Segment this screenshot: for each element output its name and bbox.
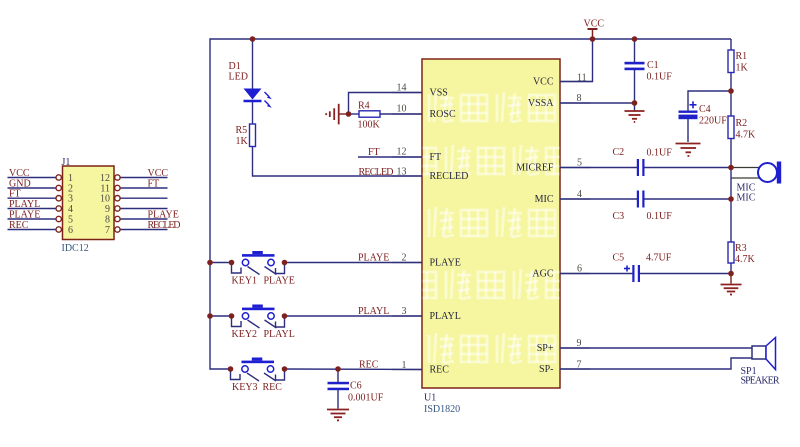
- junction dot AGC node: [728, 271, 734, 277]
- U1 pin 3 stub: [392, 306, 422, 317]
- wire C4 branch: [688, 91, 731, 111]
- junction dot R4 ground node: [346, 111, 352, 117]
- svg-text:C1: C1: [647, 60, 659, 71]
- resistor R4: [358, 101, 381, 131]
- J1 pin 9 row: [105, 204, 168, 215]
- wire C3 to MIC node: [644, 198, 731, 200]
- svg-text:IDC12: IDC12: [62, 243, 89, 254]
- svg-text:REC: REC: [359, 359, 379, 370]
- svg-text:MICREF: MICREF: [516, 163, 554, 174]
- wire KEY1 left: [210, 262, 232, 264]
- J1 pin 10 row: [100, 194, 168, 205]
- svg-text:RECLED: RECLED: [430, 171, 469, 182]
- capacitor C4 electrolytic: [679, 101, 728, 126]
- svg-text:KEY3: KEY3: [232, 382, 258, 393]
- wire R4 to ROSC pin: [380, 113, 422, 115]
- U1 pin name FT: [430, 152, 442, 163]
- U1 pin name AGC: [532, 269, 553, 280]
- svg-text:VCC: VCC: [533, 77, 554, 88]
- junction dot LED top: [250, 36, 256, 42]
- svg-text:PLAYL: PLAYL: [358, 306, 389, 317]
- U1 pin 13 stub: [392, 167, 422, 178]
- resistor R1: [728, 50, 749, 74]
- U1 pin 12 stub: [392, 147, 422, 158]
- J1 pin 2 row: [8, 179, 74, 195]
- U1 pin name SP-: [539, 364, 553, 375]
- svg-text:9: 9: [105, 204, 110, 215]
- U1 pin name RECLED: [430, 171, 469, 182]
- svg-text:4: 4: [68, 204, 73, 215]
- svg-text:4.7UF: 4.7UF: [646, 253, 672, 264]
- svg-text:MIC: MIC: [535, 194, 554, 205]
- J1 pin 12 row: [100, 168, 168, 184]
- wire ground node to R4: [349, 113, 360, 115]
- svg-text:0.1UF: 0.1UF: [647, 72, 673, 83]
- wire VCC symbol to pin 11: [560, 39, 593, 82]
- U1 pin name PLAYL: [430, 311, 461, 322]
- U1 pin name VSS: [430, 88, 448, 99]
- svg-text:R1: R1: [736, 51, 748, 62]
- wire R2 to MICREF node: [730, 139, 732, 168]
- svg-text:FT: FT: [368, 147, 380, 158]
- wire VSSA node to ground: [634, 103, 636, 111]
- net label REC: [359, 359, 379, 370]
- svg-text:1: 1: [68, 173, 73, 184]
- net label PLAYE: [358, 253, 389, 264]
- ground below C1: [625, 111, 645, 122]
- U1 pin name PLAYE: [430, 258, 461, 269]
- J1 pin 6 row: [8, 220, 74, 236]
- connector J1 IDC12: [62, 157, 115, 254]
- svg-text:8: 8: [105, 215, 110, 226]
- svg-text:KEY2: KEY2: [232, 329, 258, 340]
- U1 designator label: [424, 393, 460, 416]
- wire MICREF node to mic: [731, 167, 759, 169]
- junction dot rail KEY2: [207, 313, 213, 319]
- svg-text:SP+: SP+: [537, 343, 554, 354]
- svg-text:VCC: VCC: [9, 168, 30, 179]
- svg-text:VSS: VSS: [430, 88, 448, 99]
- U1 pin name MICREF: [516, 163, 554, 174]
- wire R1 to R2: [730, 73, 732, 117]
- svg-text:PLAYE: PLAYE: [358, 253, 389, 264]
- wire R3 to AGC node: [730, 263, 732, 274]
- wire FT stub: [358, 156, 422, 158]
- wire R1 column: [730, 39, 732, 50]
- svg-text:10: 10: [397, 104, 407, 115]
- svg-text:PLAYL: PLAYL: [430, 311, 461, 322]
- junction dot KEY1 right: [282, 260, 288, 266]
- svg-text:LED: LED: [229, 72, 248, 83]
- capacitor C1: [625, 60, 673, 83]
- pushbutton KEY1: [232, 251, 295, 287]
- junction dot MIC node: [728, 196, 734, 202]
- svg-text:220UF: 220UF: [699, 116, 727, 127]
- svg-text:1K: 1K: [736, 63, 749, 74]
- svg-text:0.1UF: 0.1UF: [647, 211, 673, 222]
- junction dot R1 R2 C4 node: [728, 88, 734, 94]
- svg-text:C6: C6: [350, 381, 362, 392]
- svg-text:R3: R3: [735, 243, 747, 254]
- svg-text:C5: C5: [613, 253, 625, 264]
- U1 pin 7 stub: [560, 360, 590, 371]
- U1 pin 10 stub: [392, 104, 422, 115]
- VCC power symbol: [584, 19, 605, 40]
- svg-text:0.001UF: 0.001UF: [348, 393, 384, 404]
- LED D1: [229, 61, 272, 108]
- J1 pin 8 row: [105, 210, 179, 226]
- svg-text:5: 5: [68, 215, 73, 226]
- U1 pin 1 stub: [392, 360, 422, 371]
- svg-text:PLAYE: PLAYE: [148, 210, 179, 221]
- svg-text:C2: C2: [613, 147, 625, 158]
- U1 pin 2 stub: [392, 253, 422, 264]
- U1 pin 9 stub: [560, 338, 590, 349]
- pushbutton KEY3: [231, 358, 285, 394]
- svg-text:REC: REC: [263, 382, 283, 393]
- svg-text:VCC: VCC: [584, 19, 605, 30]
- svg-text:100K: 100K: [358, 120, 381, 131]
- svg-text:4.7K: 4.7K: [736, 130, 757, 141]
- U1 pin name VSSA: [528, 98, 554, 109]
- svg-text:C4: C4: [699, 104, 711, 115]
- svg-text:MIC: MIC: [737, 193, 756, 204]
- wire VSS pin to ground node: [349, 93, 423, 115]
- U1 pin 8 stub: [560, 93, 590, 104]
- J1 pin 3 row: [8, 189, 74, 205]
- svg-text:ISD1820: ISD1820: [424, 404, 460, 415]
- junction dot C1 rail: [632, 36, 638, 42]
- wire SP+ to speaker: [560, 347, 752, 349]
- svg-text:1K: 1K: [236, 136, 249, 147]
- wire C6 to ground: [337, 390, 339, 409]
- svg-text:SP-: SP-: [539, 364, 553, 375]
- ground below R3: [721, 285, 742, 295]
- svg-text:VSSA: VSSA: [528, 98, 554, 109]
- svg-text:PLAYL: PLAYL: [9, 199, 40, 210]
- capacitor C5: [613, 253, 672, 283]
- svg-text:FT: FT: [430, 152, 442, 163]
- wire KEY2 to PLAYL pin: [285, 315, 423, 317]
- ground sideways at R4: [326, 104, 339, 125]
- junction dot VSSA node: [632, 100, 638, 106]
- wire C4 to ground: [687, 119, 689, 142]
- pushbutton KEY2: [232, 305, 295, 341]
- wire KEY3 to REC pin: [285, 368, 423, 371]
- svg-text:RECLED: RECLED: [359, 167, 394, 178]
- junction dot KEY2 left: [229, 313, 235, 319]
- U1 pin name SP+: [537, 343, 554, 354]
- svg-text:PLAYL: PLAYL: [264, 329, 295, 340]
- capacitor C2: [613, 147, 673, 176]
- svg-text:FT: FT: [148, 179, 160, 190]
- resistor R3: [728, 242, 756, 265]
- wire MICREF pin to C2: [560, 167, 637, 169]
- op-amp U1 ISD1820 chip body: [410, 59, 572, 388]
- wire MIC node to R3: [730, 199, 732, 242]
- U1 pin name REC: [430, 365, 450, 376]
- wire top VCC rail: [210, 38, 731, 40]
- wire LED column top: [252, 39, 254, 89]
- wire KEY1 to PLAYE pin: [285, 262, 423, 264]
- junction dot rail KEY1: [207, 260, 213, 266]
- U1 pin 6 stub: [560, 264, 590, 275]
- J1 pin 4 row: [8, 199, 74, 215]
- resistor R2: [728, 116, 756, 141]
- svg-text:6: 6: [68, 225, 73, 236]
- microphone MIC: [737, 162, 782, 204]
- svg-text:12: 12: [397, 147, 407, 158]
- wire AGC node to ground: [730, 274, 732, 284]
- net label FT: [368, 147, 380, 158]
- svg-text:REC: REC: [430, 365, 450, 376]
- svg-text:PLAYE: PLAYE: [264, 276, 295, 287]
- J1 pin 11 row: [100, 179, 167, 195]
- junction dot KEY1 left: [229, 260, 235, 266]
- svg-text:PLAYE: PLAYE: [9, 210, 40, 221]
- svg-text:0.1UF: 0.1UF: [647, 148, 673, 159]
- wire KEY2 left: [210, 315, 232, 317]
- wire ground stub R4: [339, 113, 349, 115]
- net label PLAYL: [358, 306, 389, 317]
- svg-text:R4: R4: [358, 101, 370, 112]
- wire SP- to speaker: [560, 358, 752, 369]
- svg-text:4.7K: 4.7K: [735, 254, 756, 265]
- wire C2 to MICREF node: [644, 167, 731, 169]
- J1 pin 7 row: [105, 220, 181, 236]
- svg-text:PLAYE: PLAYE: [430, 258, 461, 269]
- junction dot KEY2 right: [282, 313, 288, 319]
- U1 pin name MIC: [535, 194, 554, 205]
- U1 pin 14 stub: [392, 83, 422, 94]
- wire LED to R5: [252, 101, 254, 124]
- svg-text:AGC: AGC: [532, 269, 553, 280]
- wire MIC pin to C3: [560, 198, 637, 200]
- capacitor C3: [613, 191, 673, 222]
- svg-text:J1: J1: [62, 157, 71, 168]
- wire R5 to RECLED pin: [253, 147, 423, 177]
- wire C5 to AGC node: [640, 273, 731, 275]
- junction dot VCC rail: [590, 36, 596, 42]
- svg-text:KEY1: KEY1: [232, 276, 258, 287]
- wire AGC pin to C5: [560, 273, 633, 275]
- U1 pin 5 stub: [560, 158, 590, 169]
- wire C6 branch: [337, 369, 339, 382]
- junction dot KEY3 right: [282, 366, 288, 372]
- svg-text:VCC: VCC: [148, 168, 169, 179]
- speaker SP1: [741, 338, 780, 387]
- wire C1 to VSSA node: [634, 70, 636, 103]
- J1 pin 1 row: [8, 168, 74, 184]
- svg-text:U1: U1: [424, 393, 436, 404]
- wire KEY3 left: [210, 368, 231, 370]
- wire rail to C1: [634, 39, 636, 62]
- svg-text:ROSC: ROSC: [430, 109, 456, 120]
- svg-text:12: 12: [100, 173, 110, 184]
- svg-text:SPEAKER: SPEAKER: [741, 376, 780, 387]
- U1 pin 11 stub: [560, 73, 593, 84]
- svg-text:R5: R5: [236, 125, 248, 136]
- resistor R5: [236, 124, 256, 147]
- junction dot MICREF node: [728, 165, 734, 171]
- wire left rail: [209, 38, 211, 369]
- wire mic bottom to MIC node: [731, 177, 759, 179]
- capacitor C6: [328, 381, 384, 404]
- svg-text:D1: D1: [229, 61, 241, 72]
- U1 pin name ROSC: [430, 109, 456, 120]
- svg-text:7: 7: [105, 225, 110, 236]
- junction dot C6 node: [335, 366, 341, 372]
- junction dot KEY3 left: [228, 366, 234, 372]
- J1 pin 5 row: [8, 210, 74, 226]
- U1 pin 4 stub: [560, 189, 590, 200]
- svg-text:REC: REC: [9, 220, 29, 231]
- net label RECLED: [359, 167, 394, 178]
- svg-text:R2: R2: [736, 118, 748, 129]
- wire VSSA pin to node: [560, 102, 635, 104]
- ground below C6: [327, 410, 349, 421]
- ground below C4: [676, 144, 701, 157]
- svg-text:C3: C3: [613, 211, 625, 222]
- U1 pin name VCC: [533, 77, 554, 88]
- svg-text:RECLED: RECLED: [148, 220, 181, 231]
- wire MICREF node to MIC node: [730, 168, 732, 200]
